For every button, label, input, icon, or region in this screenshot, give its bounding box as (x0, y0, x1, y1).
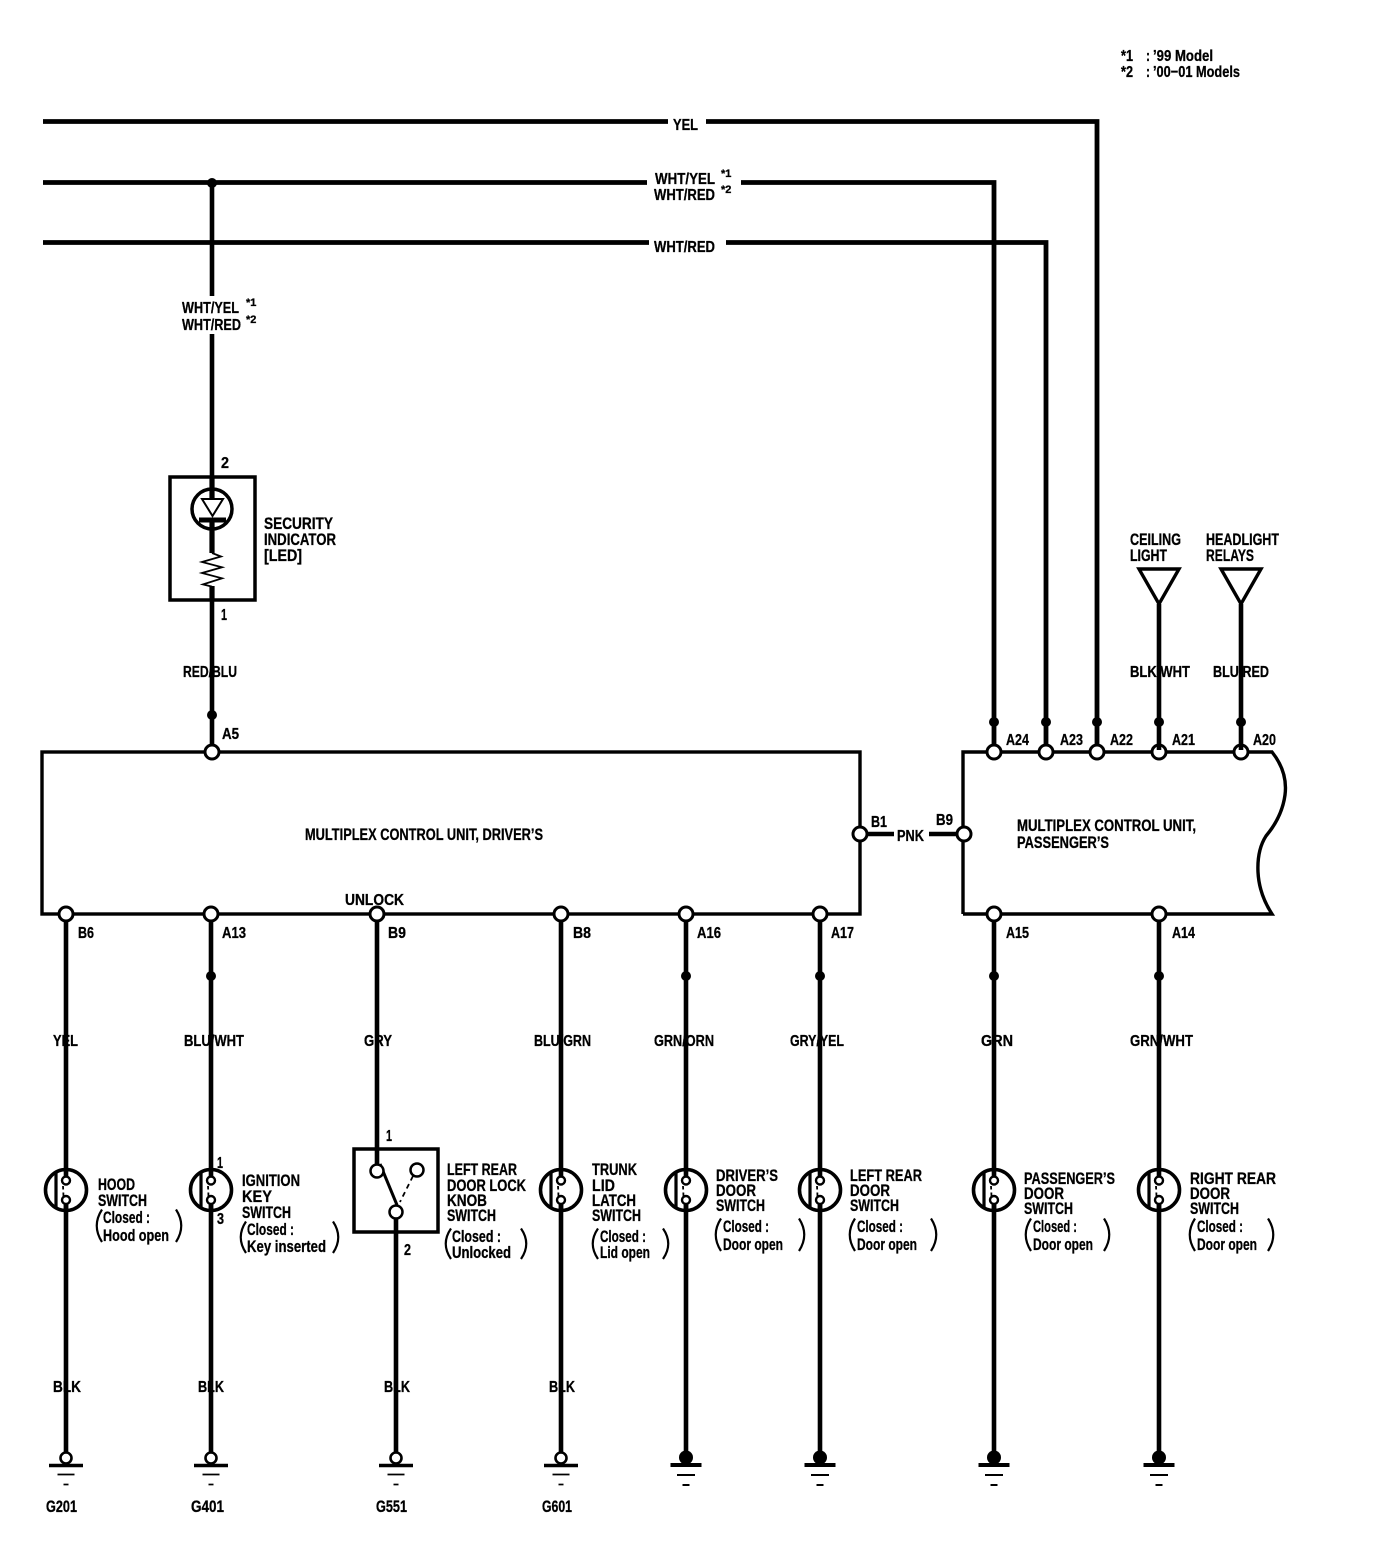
ground (right rear door switch) (1144, 1451, 1175, 1486)
wire security indicator branch upper (210, 183, 215, 296)
svg-text:Closed :: Closed : (103, 1208, 150, 1227)
dot on A15 wire (989, 971, 999, 981)
connector B9 (passenger's unit) (957, 827, 971, 841)
svg-text:WHT/RED: WHT/RED (654, 239, 715, 256)
svg-text:Door open: Door open (1197, 1235, 1257, 1254)
svg-text:A21: A21 (1172, 732, 1195, 749)
wire pin2 into LED (209, 477, 214, 499)
resistor R (security indicator) (202, 553, 222, 587)
svg-text:WHT/YEL: WHT/YEL (655, 171, 715, 188)
svg-text:BLU/GRN: BLU/GRN (534, 1033, 591, 1050)
svg-text:1: 1 (221, 607, 227, 624)
security indicator box (170, 477, 255, 600)
svg-text:G401: G401 (191, 1497, 224, 1516)
wire B6 to hood switch (64, 921, 69, 1177)
connector A21 (1152, 745, 1166, 759)
svg-text:’00−01 Models: ’00−01 Models (1153, 64, 1240, 81)
svg-text:A5: A5 (222, 726, 239, 743)
svg-text:Closed :: Closed : (1197, 1217, 1243, 1236)
svg-text:BLK: BLK (53, 1379, 81, 1396)
svg-text:A16: A16 (697, 925, 721, 942)
wire ceiling light to A21 (1157, 604, 1162, 750)
svg-text:BLK/WHT: BLK/WHT (1130, 664, 1190, 681)
dot on A16 wire (681, 971, 691, 981)
svg-text:BLU/RED: BLU/RED (1213, 664, 1269, 681)
connector A22 (1090, 745, 1104, 759)
connector A17 (813, 907, 827, 921)
multiplex control unit passenger's box outline (963, 752, 1285, 914)
svg-text:G201: G201 (46, 1497, 77, 1516)
ground (left rear door switch) (805, 1451, 836, 1486)
wire B9 to lock knob switch (375, 921, 380, 1165)
wire B8 to trunk lid latch switch (559, 921, 564, 1177)
svg-text:Unlocked: Unlocked (452, 1243, 511, 1262)
wire right rear door switch to ground (1157, 1204, 1162, 1454)
label LEFT REAR DOOR LOCK KNOB SWITCH (Closed : Unlocked) (446, 1160, 527, 1262)
LED triangle (202, 499, 223, 516)
headlight relays triangle (1221, 569, 1261, 604)
svg-text:GRY: GRY (364, 1033, 392, 1050)
label PASSENGER'S DOOR SWITCH (Closed : Door open) (1024, 1169, 1115, 1254)
lock knob switch contact pin1 (371, 1165, 384, 1178)
svg-text:GRN/WHT: GRN/WHT (1130, 1033, 1193, 1050)
connector B9 (driver's unit) (370, 907, 384, 921)
svg-text:B9: B9 (388, 925, 406, 942)
lock knob switch contact right (411, 1164, 424, 1177)
wire B1 to PNK (867, 832, 894, 837)
ground G551 (379, 1453, 413, 1485)
svg-text:RED/BLU: RED/BLU (183, 664, 237, 681)
svg-text:SWITCH: SWITCH (447, 1206, 496, 1225)
wire PNK to B9 (929, 832, 957, 837)
wire A13 to ignition key switch (209, 921, 214, 1177)
svg-text:Hood open: Hood open (103, 1226, 169, 1245)
label CEILING LIGHT (1130, 530, 1181, 565)
svg-text:B6: B6 (78, 925, 94, 942)
svg-text:BLK: BLK (384, 1379, 410, 1396)
svg-text:A17: A17 (831, 925, 854, 942)
svg-text:PASSENGER’S: PASSENGER’S (1017, 833, 1109, 852)
svg-text:SWITCH: SWITCH (850, 1196, 899, 1215)
svg-text:RELAYS: RELAYS (1206, 546, 1254, 565)
wire security indicator branch lower (210, 334, 215, 477)
svg-text:1: 1 (386, 1128, 392, 1145)
svg-text:A20: A20 (1253, 732, 1276, 749)
svg-text:Closed :: Closed : (1033, 1217, 1077, 1236)
svg-text:A15: A15 (1006, 925, 1029, 942)
svg-text:GRN: GRN (981, 1033, 1013, 1050)
svg-text:B1: B1 (871, 814, 887, 831)
svg-text:*1: *1 (246, 297, 256, 309)
svg-text:3: 3 (217, 1211, 224, 1228)
connector B8 (554, 907, 568, 921)
svg-text:SWITCH: SWITCH (592, 1206, 641, 1225)
svg-text:SWITCH: SWITCH (1190, 1199, 1239, 1218)
ignition key switch (191, 1169, 232, 1211)
connector A23 (1039, 745, 1053, 759)
dot above A24 (989, 717, 999, 727)
svg-text:GRN/ORN: GRN/ORN (654, 1033, 714, 1050)
lock knob switch dashed blade (400, 1176, 413, 1202)
connector B6 (59, 907, 73, 921)
driver's door switch (666, 1169, 707, 1211)
svg-text:Key inserted: Key inserted (247, 1237, 326, 1256)
wire driver's door switch to ground (684, 1204, 689, 1454)
dot above A20 (1236, 717, 1246, 727)
svg-text:*1: *1 (1121, 48, 1133, 65)
left rear door switch (800, 1169, 841, 1211)
svg-text:[LED]: [LED] (264, 546, 302, 565)
ground (passenger's door switch) (979, 1451, 1010, 1486)
svg-text:B8: B8 (573, 925, 591, 942)
svg-text:Door open: Door open (1033, 1235, 1093, 1254)
label WHT/YEL *1 / WHT/RED *2 (bus) (654, 168, 731, 204)
ground G201 (49, 1453, 83, 1485)
svg-text:WHT/YEL: WHT/YEL (182, 300, 239, 317)
note *2 '00-01 Models (1121, 64, 1240, 81)
label IGNITION KEY SWITCH (Closed : Key inserted) (241, 1171, 339, 1256)
wire WHT/RED bus left segment (43, 240, 649, 245)
svg-text:PNK: PNK (897, 828, 924, 845)
svg-text:BLK: BLK (549, 1379, 575, 1396)
connector A5 (205, 745, 219, 759)
wire A16 to driver's door switch (684, 921, 689, 1177)
passenger's door switch (974, 1169, 1015, 1211)
ground (driver's door switch) (671, 1451, 702, 1486)
LED cathode bar (199, 518, 226, 523)
svg-text:BLU/WHT: BLU/WHT (184, 1033, 244, 1050)
wire WHT/YEL bus left segment (43, 180, 647, 185)
dot above A23 (1041, 717, 1051, 727)
svg-text:A24: A24 (1006, 732, 1029, 749)
svg-text:*2: *2 (1121, 64, 1133, 81)
junction dot at WHT/YEL bus and indicator branch (207, 178, 217, 188)
svg-text:WHT/RED: WHT/RED (654, 187, 715, 204)
wire YEL bus left segment (43, 119, 668, 124)
wire left rear door switch to ground (818, 1204, 823, 1454)
svg-text:’99 Model: ’99 Model (1153, 48, 1213, 65)
wire LED to resistor (209, 522, 214, 553)
svg-text:Lid open: Lid open (600, 1243, 650, 1262)
svg-text:Door open: Door open (857, 1235, 917, 1254)
label TRUNK LID LATCH SWITCH (Closed : Lid open) (592, 1160, 668, 1262)
dot on A13 wire (206, 971, 216, 981)
svg-text:B9: B9 (936, 812, 953, 829)
svg-text:2: 2 (404, 1242, 411, 1259)
wire passenger's door switch to ground (992, 1204, 997, 1454)
wire A15 to passenger's door switch (992, 921, 997, 1177)
svg-text:GRY/YEL: GRY/YEL (790, 1033, 844, 1050)
connector A16 (679, 907, 693, 921)
lock knob switch blade (380, 1164, 397, 1205)
svg-text:BLK: BLK (198, 1379, 224, 1396)
ground G601 (544, 1453, 578, 1485)
label MULTIPLEX CONTROL UNIT, PASSENGER'S (1017, 816, 1196, 852)
LED circle (192, 489, 232, 529)
wire ignition key switch to G401 (209, 1204, 214, 1453)
label WHT/YEL *1 / WHT/RED *2 (branch) (182, 297, 256, 334)
svg-text:A14: A14 (1172, 925, 1195, 942)
svg-text:LIGHT: LIGHT (1130, 546, 1167, 565)
trunk lid latch switch (541, 1169, 582, 1211)
wire WHT/RED bus right segment down to A23 (726, 243, 1046, 751)
dot above A22 (1092, 717, 1102, 727)
svg-text:*2: *2 (246, 314, 256, 326)
svg-text:G551: G551 (376, 1497, 407, 1516)
connector A13 (204, 907, 218, 921)
label LEFT REAR DOOR SWITCH (Closed : Door open) (850, 1166, 937, 1254)
svg-text:MULTIPLEX CONTROL UNIT, DRIVER: MULTIPLEX CONTROL UNIT, DRIVER’S (305, 825, 543, 844)
label RIGHT REAR DOOR SWITCH (Closed : Door open) (1190, 1169, 1276, 1254)
svg-text:YEL: YEL (673, 117, 698, 134)
svg-text:*2: *2 (721, 184, 731, 196)
wire lock knob switch to G551 (394, 1218, 399, 1453)
connector A15 (987, 907, 1001, 921)
svg-text:2: 2 (221, 455, 229, 472)
svg-text:G601: G601 (542, 1497, 572, 1516)
left rear door lock knob switch box (354, 1149, 438, 1232)
connector A24 (987, 745, 1001, 759)
note *1 '99 Model (1121, 48, 1213, 65)
connector A20 (1234, 745, 1248, 759)
lock knob switch contact pin2 (390, 1206, 403, 1219)
svg-text:A22: A22 (1110, 732, 1133, 749)
connector A14 (1152, 907, 1166, 921)
wire resistor to pin1 (209, 586, 214, 601)
wire A14 to right rear door switch (1157, 921, 1162, 1177)
label HOOD SWITCH (Closed : Hood open) (97, 1175, 182, 1245)
svg-text:SWITCH: SWITCH (716, 1196, 765, 1215)
label SECURITY INDICATOR [LED] (264, 514, 336, 565)
svg-text::: : (1146, 48, 1150, 65)
svg-text:SWITCH: SWITCH (1024, 1199, 1073, 1218)
dot on A14 wire (1154, 971, 1164, 981)
dot above A5 (207, 710, 217, 720)
label DRIVER'S DOOR SWITCH (Closed : Door open) (716, 1166, 805, 1254)
wire A17 to left rear door switch (818, 921, 823, 1177)
right rear door switch (1139, 1169, 1180, 1211)
svg-text:Closed :: Closed : (857, 1217, 903, 1236)
wire WHT/YEL bus right segment down to A24 (741, 183, 994, 751)
dot on A17 wire (815, 971, 825, 981)
svg-text:A13: A13 (222, 925, 246, 942)
wire pin1 down to A5 (210, 601, 215, 748)
ceiling light triangle (1139, 569, 1179, 604)
svg-text::: : (1146, 64, 1150, 81)
wire headlight relays to A20 (1239, 604, 1244, 750)
multiplex control unit driver's box (42, 752, 860, 914)
svg-text:YEL: YEL (53, 1033, 78, 1050)
wire trunk lid latch switch to G601 (559, 1204, 564, 1453)
svg-text:Closed :: Closed : (723, 1217, 769, 1236)
ground G401 (194, 1453, 228, 1485)
wire YEL bus right segment down to A22 (706, 122, 1097, 751)
svg-text:A23: A23 (1060, 732, 1083, 749)
connector B1 (853, 827, 867, 841)
svg-text:*1: *1 (721, 168, 731, 180)
svg-text:Door open: Door open (723, 1235, 783, 1254)
hood switch (46, 1169, 87, 1211)
dot above A21 (1154, 717, 1164, 727)
wire hood switch to G201 (64, 1204, 69, 1453)
svg-text:WHT/RED: WHT/RED (182, 317, 241, 334)
label HEADLIGHT RELAYS (1206, 530, 1279, 565)
